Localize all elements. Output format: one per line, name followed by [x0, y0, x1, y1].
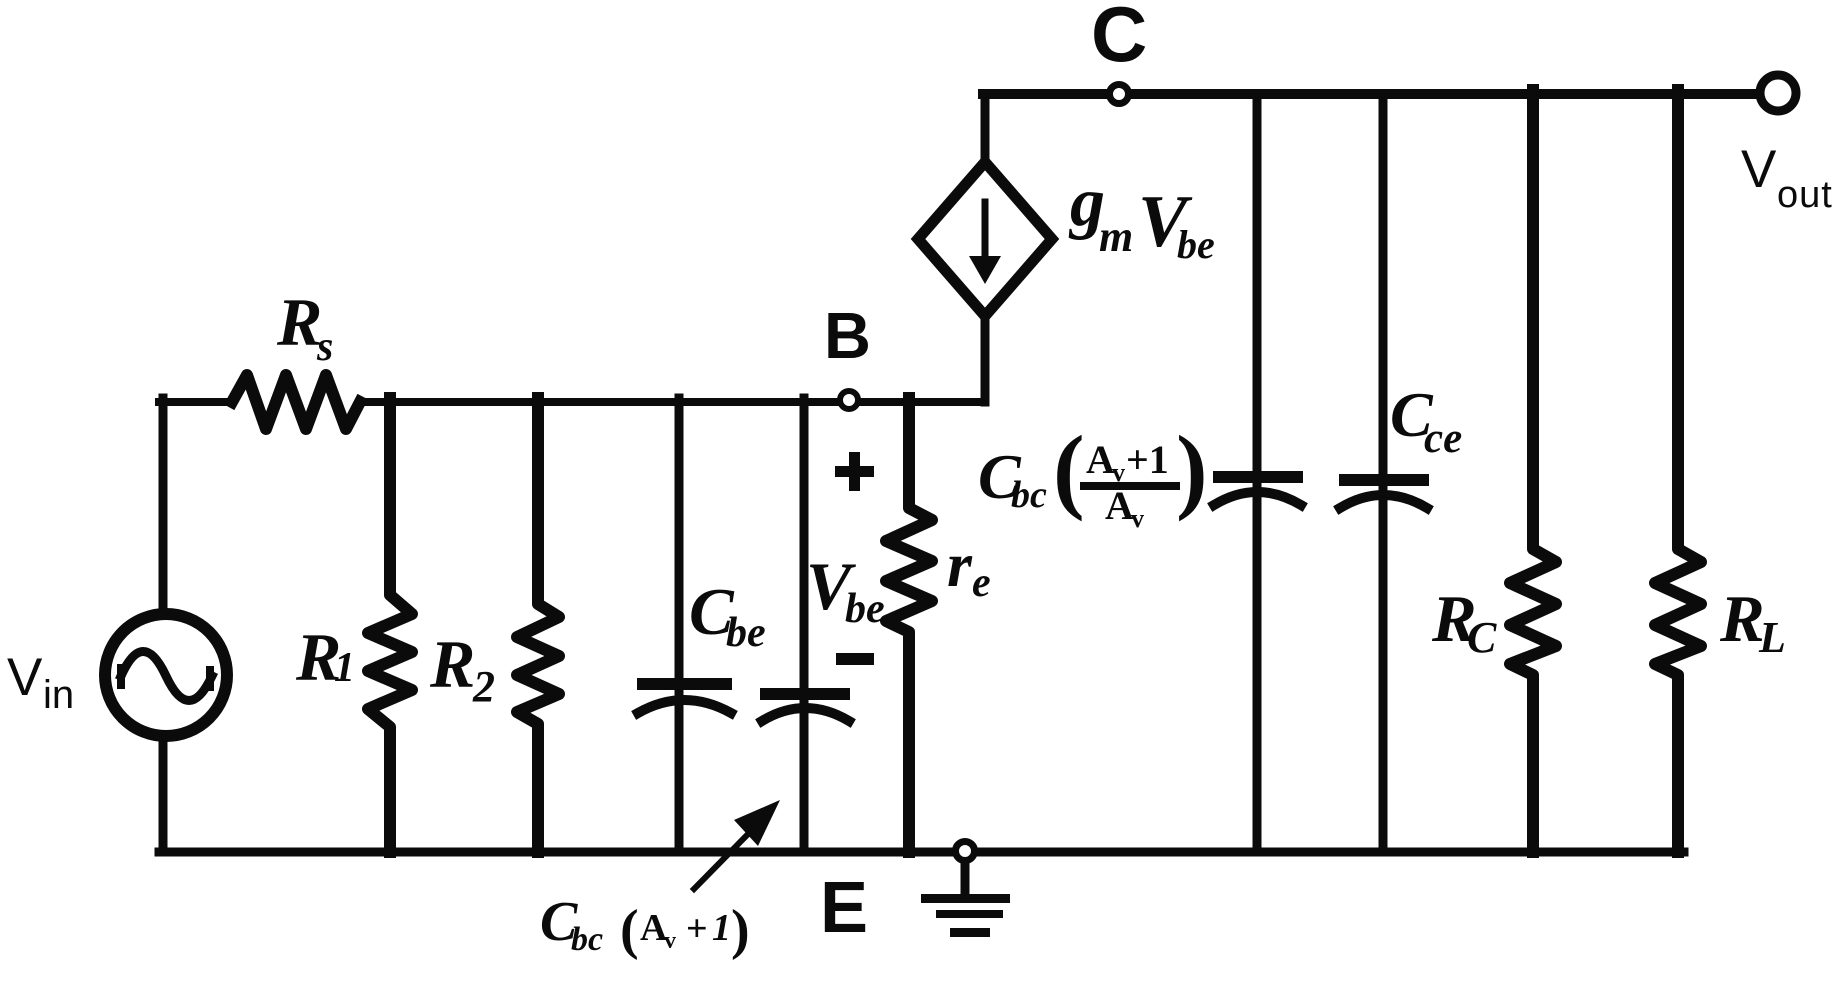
svg-text:): ): [731, 899, 750, 961]
svg-text:A: A: [1086, 437, 1115, 482]
ground bar 1: [921, 894, 1010, 903]
resistor re with leads: [886, 398, 932, 852]
svg-text:in: in: [43, 673, 74, 717]
svg-text:1: 1: [712, 907, 731, 949]
svg-text:): ): [1176, 416, 1208, 522]
source Vin sine left tick: [117, 668, 125, 685]
svg-text:v: v: [1131, 504, 1144, 533]
capacitor Cce bottom curved plate: [1340, 495, 1427, 508]
wire Vin branch upper lead: [159, 398, 168, 616]
resistor Rs: [232, 375, 360, 429]
svg-text:s: s: [316, 324, 333, 370]
source Vin sine wave: [121, 652, 212, 701]
wire B rail left segment (Vin corner to Rs): [159, 398, 232, 406]
label plus sign: [849, 452, 860, 491]
svg-text:out: out: [1777, 174, 1833, 216]
svg-text:V: V: [1741, 140, 1777, 199]
svg-text:R: R: [1719, 582, 1765, 656]
svg-text:A: A: [1105, 483, 1134, 528]
svg-text:1: 1: [334, 645, 355, 691]
capacitor Cbe top plate: [637, 678, 732, 690]
svg-text:bc: bc: [1011, 474, 1047, 516]
svg-text:C: C: [1467, 613, 1497, 662]
svg-text:2: 2: [472, 662, 495, 711]
capacitor Cbe bottom curved plate: [638, 700, 731, 713]
annotation arrow head: [734, 800, 780, 846]
svg-text:E: E: [820, 868, 868, 948]
ground stem: [961, 862, 970, 894]
svg-text:+: +: [686, 908, 708, 950]
svg-text:bc: bc: [571, 921, 603, 958]
capacitor Cce top plate: [1339, 474, 1429, 486]
wire Cbc(Av+1) branch: [800, 398, 809, 852]
wire current source lower lead: [981, 317, 990, 402]
source Vin sine right tick: [206, 670, 214, 687]
label minus sign: [836, 653, 874, 665]
node C terminal circle: [1110, 85, 1129, 104]
svg-text:B: B: [824, 299, 871, 372]
svg-text:L: L: [1758, 613, 1786, 662]
resistor R2 with leads: [517, 398, 559, 852]
svg-text:be: be: [1177, 222, 1215, 267]
ground bar 2: [936, 910, 1003, 918]
wire current source upper lead: [981, 94, 990, 166]
svg-text:be: be: [845, 586, 885, 632]
svg-text:R: R: [276, 284, 322, 360]
annotation arrow shaft to Cbc(Av+1): [694, 830, 752, 889]
wire top rail C to Vout: [983, 89, 1757, 99]
svg-text:+1: +1: [1126, 437, 1169, 482]
svg-text:(: (: [620, 899, 639, 961]
wire Cbc((Av+1)/Av) branch: [1253, 94, 1262, 852]
dependent current source gmVbe diamond: [918, 162, 1052, 316]
current source arrow shaft: [982, 202, 989, 258]
svg-text:(: (: [1053, 416, 1085, 522]
svg-text:v: v: [664, 928, 676, 954]
wire Cce branch: [1379, 94, 1388, 852]
resistor R1 with leads: [368, 398, 412, 852]
svg-text:V: V: [7, 648, 43, 707]
node E terminal circle: [956, 842, 975, 861]
capacitor Cbc(Av+1) top plate: [760, 688, 850, 700]
svg-text:m: m: [1099, 212, 1133, 261]
svg-text:R: R: [429, 626, 475, 702]
current source arrow head: [969, 256, 1001, 284]
resistor RL with leads: [1655, 90, 1701, 852]
svg-text:ce: ce: [1424, 415, 1462, 462]
capacitor Cbc(Av+1) bottom curved plate: [762, 708, 849, 721]
svg-text:be: be: [726, 610, 766, 656]
wire Cbe branch: [675, 398, 684, 852]
ground bar 3: [950, 928, 990, 937]
svg-text:r: r: [947, 529, 973, 600]
terminal Vout circle: [1760, 75, 1796, 111]
node B terminal circle: [840, 391, 858, 409]
wire Vin branch lower lead: [159, 736, 168, 852]
wire B rail right segment (Rs to current source corner): [360, 398, 985, 406]
source Vin circle: [105, 614, 227, 736]
wire bottom rail E: [159, 848, 1684, 857]
capacitor Cbc((Av+1)/Av) bottom curved plate: [1214, 492, 1301, 505]
svg-text:C: C: [1091, 0, 1147, 78]
svg-text:e: e: [972, 560, 991, 606]
capacitor Cbc((Av+1)/Av) top plate: [1213, 471, 1303, 483]
resistor RC with leads: [1510, 90, 1556, 852]
